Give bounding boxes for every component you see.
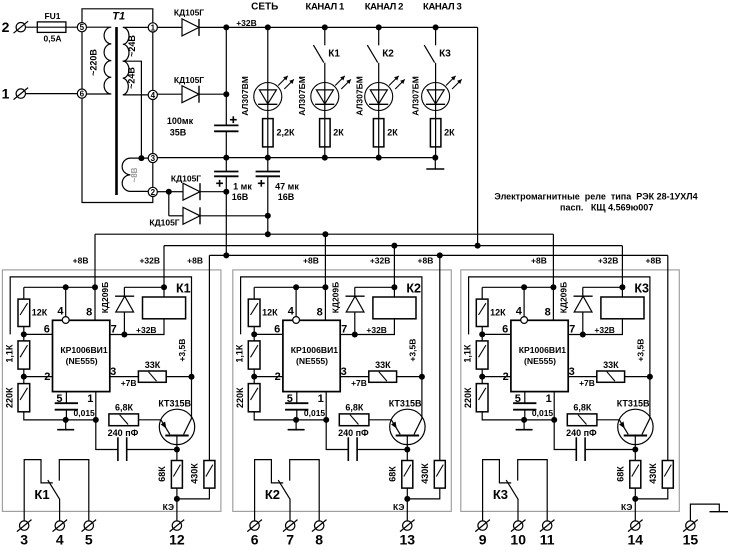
wire node2 branch down to VD4 [168, 192, 170, 216]
svg-text:2: 2 [44, 371, 50, 383]
svg-text:100мк: 100мк [167, 116, 194, 126]
resistor 1,1К (block К2) [253, 334, 255, 341]
+8В feed wire left (block К2) [324, 234, 326, 287]
junction ground row (block К1) [63, 417, 69, 423]
+32В feed wire (block К3) [621, 246, 623, 288]
common rail (node 3 row) [157, 157, 435, 159]
svg-text:АЛ307БМ: АЛ307БМ [297, 76, 307, 116]
junction +32В/СЕТЬ branch [265, 24, 271, 30]
terminal 2 (mains input) [16, 23, 25, 32]
pin 8 wire (block К1) [94, 287, 96, 320]
node 4 [148, 90, 157, 99]
svg-text:К2: К2 [265, 487, 280, 502]
svg-text:+8В: +8В [73, 255, 89, 265]
svg-text:3: 3 [151, 154, 156, 163]
contact К3 (channel switch) [435, 27, 437, 45]
feedback rail wire (block К1) [10, 277, 191, 418]
pin 8 wire (block К3) [552, 287, 554, 320]
+32В feed wire (block К2) [393, 246, 395, 288]
pin 2 wire (block К3) [482, 376, 511, 378]
contact К2 (channel switch) [378, 27, 380, 45]
wire 33К to collector line (block К1) [166, 376, 191, 378]
svg-text:33К: 33К [603, 360, 619, 370]
svg-text:К3: К3 [634, 282, 649, 296]
svg-text:1,1К: 1,1К [463, 344, 473, 363]
svg-text:2К: 2К [444, 128, 455, 138]
svg-text:6,8К: 6,8К [573, 402, 592, 412]
junction pin8/+8В (block К2) [322, 284, 328, 290]
svg-text:К2: К2 [406, 282, 421, 296]
junction pin2 (block К3) [479, 374, 485, 380]
resistor 68К (block К1) [176, 450, 178, 461]
junction pin1 (block К1) [93, 417, 99, 423]
svg-text:СЕТЬ: СЕТЬ [251, 2, 278, 13]
node 5 [77, 23, 86, 32]
svg-text:6: 6 [251, 532, 259, 548]
svg-text:2: 2 [503, 371, 509, 383]
svg-text:6: 6 [80, 90, 85, 99]
svg-text:3: 3 [110, 366, 116, 378]
svg-text:4: 4 [151, 91, 156, 100]
svg-text:6,8К: 6,8К [345, 402, 364, 412]
svg-text:+32В: +32В [136, 325, 157, 335]
junction VD3/1мк [223, 189, 229, 195]
svg-text:КР1006ВИ1: КР1006ВИ1 [60, 345, 107, 355]
node 6 [77, 89, 86, 98]
junction pin7 (block К3) [580, 332, 586, 338]
connector wire at terminal 15 [690, 504, 719, 521]
svg-text:АЛ307ВМ: АЛ307ВМ [240, 76, 250, 116]
junction +32В bus/source [475, 243, 481, 249]
СЕТЬ branch wire [267, 27, 269, 157]
IC КР1006ВИ1 (NE555) (block К2) [283, 320, 340, 391]
resistor 33К (block К2) [369, 371, 397, 382]
capacitor 100мк 35В [214, 124, 238, 126]
svg-text:6: 6 [44, 323, 50, 335]
junction VD4/47мк [265, 213, 271, 219]
junction КЭ (block К2) [404, 496, 410, 502]
wire 220К to ground row (block К1) [24, 412, 96, 420]
svg-text:1: 1 [318, 393, 324, 405]
pin 4 wire with inversion bubble (block К1) [65, 287, 67, 316]
svg-text:430К: 430К [190, 463, 200, 484]
junction pin6 (block К3) [479, 331, 485, 337]
junction common/К3 branch [432, 155, 438, 161]
svg-text:240 пФ: 240 пФ [566, 428, 597, 438]
svg-text:~24В: ~24В [127, 67, 137, 89]
resistor 2К (К2) [373, 119, 384, 147]
svg-text:3: 3 [20, 532, 28, 548]
terminal 13 [403, 521, 412, 530]
pin 1 wire (block К3) [553, 392, 555, 420]
junction collector/33К (block К3) [647, 374, 653, 380]
LED АЛ307БМ (К1) [311, 83, 339, 111]
svg-text:68К: 68К [615, 466, 625, 482]
svg-text:47 мк: 47 мк [275, 182, 299, 192]
svg-text:(NE555): (NE555) [66, 356, 98, 366]
terminal 5 [84, 521, 93, 530]
svg-text:+8В: +8В [646, 255, 662, 265]
node 2 [148, 187, 157, 196]
svg-text:~8В: ~8В [130, 167, 139, 182]
resistor 68К (block К3) [634, 450, 636, 461]
svg-text:К2: К2 [382, 49, 394, 60]
svg-text:КД209Б: КД209Б [331, 282, 341, 314]
svg-text:(NE555): (NE555) [524, 356, 556, 366]
pin 2 wire (block К2) [254, 376, 283, 378]
wire terminal2 to fuse to node 5 [25, 26, 77, 28]
svg-text:68К: 68К [157, 466, 167, 482]
svg-text:6,8К: 6,8К [115, 402, 134, 412]
wire VD2 to +32В column [199, 93, 226, 95]
transformer winding ~8В (lower small) [122, 158, 148, 191]
resistor 6,8К (block К2) [339, 414, 369, 426]
svg-text:+32В: +32В [366, 325, 387, 335]
junction collector/33К (block К1) [189, 374, 195, 380]
wire 220К to ground row (block К2) [254, 412, 326, 420]
capacitor 240пФ (block К2) [326, 420, 348, 450]
IC КР1006ВИ1 (NE555) (block К1) [53, 320, 110, 391]
junction tap/node3 [138, 155, 144, 161]
svg-text:14: 14 [628, 532, 644, 548]
svg-text:2: 2 [275, 371, 281, 383]
svg-text:0,015: 0,015 [304, 408, 326, 418]
capacitor 0,015 (block К1) [55, 402, 78, 404]
svg-text:1: 1 [2, 86, 10, 102]
svg-text:5: 5 [85, 532, 93, 548]
resistor 220К (block К2) [253, 377, 255, 384]
junction КЭ (block К1) [174, 496, 180, 502]
wire diode to relay К2 (block К2) [355, 286, 395, 288]
wire VD4 to 47мк column [200, 215, 268, 217]
terminal 6 [250, 521, 259, 530]
+8В rail wire (block К1) [24, 286, 95, 288]
svg-text:Электромагнитные реле типа: Электромагнитные реле типа РЭК 28-1УХЛ4 [494, 191, 697, 201]
wire terminal1 to node 6 [25, 93, 77, 95]
svg-text:КД105Г: КД105Г [171, 174, 201, 184]
junction lower bus/1мк [223, 252, 229, 258]
svg-text:220К: 220К [5, 387, 15, 408]
terminal 12 [172, 521, 181, 530]
diode КД209Б (block К2) [354, 287, 356, 296]
junction ground row (block К2) [293, 417, 299, 423]
diode КД105Г (VD4) [183, 207, 200, 224]
svg-text:КР1006ВИ1: КР1006ВИ1 [291, 345, 338, 355]
svg-text:8: 8 [545, 307, 551, 319]
svg-text:(NE555): (NE555) [296, 356, 328, 366]
feedback rail wire (block К2) [241, 277, 422, 418]
pin 5 wire (block К1) [65, 392, 67, 404]
svg-text:КЭ: КЭ [621, 502, 632, 512]
+8В feed wire right (block К3) [667, 255, 669, 460]
svg-text:2К: 2К [387, 128, 398, 138]
resistor 12К (block К1) [23, 287, 25, 299]
svg-text:+3,5В: +3,5В [408, 339, 418, 362]
svg-text:6: 6 [274, 323, 280, 335]
+8В bus (lower) [209, 254, 667, 256]
relay coil К3 [621, 287, 623, 297]
+32В bus [164, 245, 622, 247]
relay contacts К1 [24, 460, 53, 521]
junction pin8/+8В (block К3) [550, 284, 556, 290]
svg-text:1 мк: 1 мк [233, 182, 252, 192]
wire diode to relay К1 (block К1) [124, 286, 164, 288]
wire VD1 to +32В rail [199, 26, 226, 28]
pin 2 wire (block К1) [24, 376, 53, 378]
wire 1мк to VD3 junction and +8В bus [225, 176, 227, 255]
junction emitter (block К3) [632, 447, 638, 453]
wire +32В rail drop to relay bus [477, 27, 479, 245]
svg-text:+8В: +8В [418, 255, 434, 265]
svg-text:АЛ307БМ: АЛ307БМ [410, 76, 420, 116]
svg-text:КЭ: КЭ [163, 502, 174, 512]
svg-text:8: 8 [86, 307, 92, 319]
svg-text:7: 7 [111, 323, 117, 335]
node 1 [148, 23, 157, 32]
pin 1 wire (block К2) [325, 392, 327, 420]
pin 8 wire (block К2) [324, 287, 326, 320]
svg-text:КТ315В: КТ315В [389, 398, 422, 408]
svg-text:+32В: +32В [594, 325, 615, 335]
svg-text:КД105Г: КД105Г [174, 8, 204, 18]
svg-text:35В: 35В [170, 128, 187, 138]
svg-text:КАНАЛ 1: КАНАЛ 1 [306, 2, 345, 13]
LED АЛ307БМ (К2) [365, 83, 393, 111]
svg-text:1: 1 [87, 393, 93, 405]
relay coil К2 [393, 287, 395, 297]
svg-text:4: 4 [57, 306, 64, 318]
+8В rail wire (block К3) [482, 286, 553, 288]
svg-text:4: 4 [288, 306, 295, 318]
junction lower bus/block2 [437, 252, 443, 258]
svg-text:+7В: +7В [121, 378, 137, 388]
transistor КТ315В (block К1) [159, 409, 194, 444]
junction +32В/К1 branch [322, 24, 328, 30]
svg-text:240 пФ: 240 пФ [108, 428, 139, 438]
resistor 2К (К1) [320, 119, 331, 147]
svg-text:КД105Г: КД105Г [174, 75, 204, 85]
junction common/К1 branch [322, 155, 328, 161]
resistor 33К (block К1) [138, 371, 166, 382]
svg-text:4: 4 [516, 306, 523, 318]
svg-text:10: 10 [510, 532, 526, 548]
resistor 2,2К [263, 119, 274, 147]
svg-text:0,015: 0,015 [532, 408, 554, 418]
svg-text:+3,5В: +3,5В [177, 339, 187, 362]
resistor 430К (block К1) [204, 461, 215, 489]
svg-text:1,1К: 1,1К [4, 344, 14, 363]
LED АЛ307ВМ (СЕТЬ) [254, 83, 282, 111]
svg-text:К3: К3 [439, 49, 451, 60]
contact К1 (channel switch) [324, 27, 326, 45]
svg-text:15: 15 [683, 532, 699, 548]
svg-text:+3,5В: +3,5В [636, 339, 646, 362]
+32В feed wire (block К1) [163, 246, 165, 288]
+8В feed wire right (block К2) [439, 255, 441, 460]
wire VD3 to 1мк column [200, 191, 226, 193]
terminal 15 [686, 521, 695, 530]
svg-text:9: 9 [479, 532, 487, 548]
svg-text:3: 3 [341, 366, 347, 378]
junction VD2 output [223, 91, 229, 97]
svg-text:КТ315В: КТ315В [158, 398, 191, 408]
svg-text:6: 6 [502, 323, 508, 335]
junction +32В bus/block2 [391, 243, 397, 249]
wire 220К to ground row (block К3) [482, 412, 554, 420]
ground at common rail [434, 158, 436, 169]
junction emitter (block К1) [174, 447, 180, 453]
transistor КТ315В (block К2) [390, 409, 425, 444]
svg-text:13: 13 [400, 532, 416, 548]
ground (block К3) [523, 420, 525, 430]
junction bus/block2 +8В [322, 231, 328, 237]
capacitor 47мк 16В [267, 158, 269, 172]
transformer secondary winding ~24В (lower) [123, 61, 148, 95]
+8В feed wire left (block К3) [552, 234, 554, 287]
svg-text:0,5А: 0,5А [44, 34, 62, 44]
wire node2 to diode VD3 [157, 191, 168, 193]
junction ground row (block К3) [521, 417, 527, 423]
resistor 430К (block К3) [662, 461, 673, 489]
transformer T1 outline box [82, 9, 153, 23]
svg-text:5: 5 [80, 23, 85, 32]
capacitor 240пФ (block К1) [96, 420, 118, 450]
diode КД105Г (VD3) [183, 183, 200, 200]
junction pin2 (block К1) [21, 374, 27, 380]
svg-text:КТ315В: КТ315В [617, 398, 650, 408]
LED АЛ307БМ (К3) [422, 83, 450, 111]
pin 3 wire (block К2) [340, 376, 369, 378]
junction pin6 (block К2) [251, 331, 257, 337]
transformer core [115, 27, 118, 195]
wire centre tap to node 3 [123, 61, 148, 158]
svg-text:1,1К: 1,1К [235, 344, 245, 363]
svg-text:12К: 12К [262, 307, 278, 317]
+8В feed wire right (block К1) [208, 255, 210, 460]
terminal 1 (mains input) [16, 89, 25, 98]
svg-text:1: 1 [546, 393, 552, 405]
relay contacts К3 [483, 460, 512, 521]
svg-text:220К: 220К [463, 387, 473, 408]
svg-text:7: 7 [286, 532, 294, 548]
diode КД209Б (block К1) [123, 287, 125, 296]
svg-text:1: 1 [151, 23, 156, 32]
wire diode to relay К3 (block К3) [583, 286, 623, 288]
junction relay top (block К3) [619, 284, 625, 290]
svg-text:12К: 12К [490, 307, 506, 317]
resistor 220К (block К1) [23, 377, 25, 384]
resistor 68К (block К2) [406, 450, 408, 461]
capacitor 240пФ (block К3) [554, 420, 576, 450]
svg-text:8: 8 [317, 307, 323, 319]
wire relay coil to pin 7 (block К3) [568, 319, 622, 335]
junction pin7 (block К2) [352, 332, 358, 338]
+8В bus (upper) [95, 233, 553, 235]
wire relay coil to pin 7 (block К2) [340, 319, 394, 335]
+8В feed wire left (block К1) [94, 234, 96, 287]
wire node4 to diode VD2 [157, 93, 182, 95]
resistor 1,1К (block К1) [23, 334, 25, 341]
IC КР1006ВИ1 (NE555) (block К3) [511, 320, 568, 391]
svg-text:К3: К3 [493, 487, 508, 502]
terminal 14 [631, 521, 640, 530]
svg-text:КАНАЛ 3: КАНАЛ 3 [423, 2, 461, 13]
feedback rail wire (block К3) [469, 277, 650, 418]
capacitor 0,015 (block К3) [513, 402, 536, 404]
terminal 11 [543, 521, 552, 530]
junction emitter (block К2) [404, 447, 410, 453]
junction pin7 (block К1) [121, 332, 127, 338]
wire К1 branch [324, 63, 326, 158]
svg-text:33К: 33К [145, 360, 161, 370]
pin 6 wire (block К3) [482, 333, 511, 335]
pin 3 wire (block К1) [110, 376, 139, 378]
svg-text:+7В: +7В [351, 378, 367, 388]
junction common/1мк [223, 155, 229, 161]
junction pin2 (block К2) [251, 374, 257, 380]
junction +32В/К3 branch [433, 24, 439, 30]
svg-text:430К: 430К [648, 463, 658, 484]
transformer primary winding ~220В [86, 27, 111, 94]
ground (block К1) [65, 420, 67, 430]
capacitor 0,015 (block К2) [285, 402, 308, 404]
svg-text:2,2К: 2,2К [277, 128, 296, 138]
wire 33К to collector line (block К2) [397, 376, 422, 378]
junction relay top (block К2) [391, 284, 397, 290]
pin 6 wire (block К1) [24, 333, 53, 335]
svg-text:+7В: +7В [579, 378, 595, 388]
svg-text:~24В: ~24В [127, 35, 137, 57]
junction pin4 (block К2) [293, 284, 299, 290]
svg-text:+32В: +32В [139, 255, 160, 265]
junction pin1 (block К2) [323, 417, 329, 423]
terminal 4 [55, 521, 64, 530]
pin 1 wire (block К1) [95, 392, 97, 420]
svg-text:К1: К1 [176, 282, 191, 296]
junction node2 branch [166, 189, 172, 195]
ground (block К2) [295, 420, 297, 430]
svg-text:2К: 2К [333, 128, 344, 138]
svg-text:220К: 220К [235, 387, 245, 408]
svg-text:11: 11 [540, 532, 555, 548]
diode КД105Г (VD2) [182, 86, 199, 103]
svg-text:КЭ: КЭ [393, 502, 404, 512]
junction common/47мк [265, 155, 271, 161]
svg-text:+8В: +8В [531, 255, 547, 265]
svg-text:16В: 16В [232, 192, 249, 202]
wire КЭ to terminal 12 (block К1) [176, 499, 178, 522]
wire К3 branch [435, 63, 437, 158]
svg-text:КД209Б: КД209Б [559, 282, 569, 314]
diode КД105Г (VD1) [182, 19, 199, 36]
terminal 8 [315, 521, 324, 530]
svg-text:пасп. КЩ 4.569ю007: пасп. КЩ 4.569ю007 [560, 203, 653, 213]
svg-text:430К: 430К [420, 463, 430, 484]
node 3 [148, 154, 157, 163]
junction КЭ (block К3) [632, 496, 638, 502]
junction pin8/+8В (block К1) [92, 284, 98, 290]
junction pin4 (block К3) [521, 284, 527, 290]
resistor 220К (block К3) [481, 377, 483, 384]
terminal 3 [20, 521, 29, 530]
wire 33К to collector line (block К3) [625, 376, 650, 378]
+8В rail wire (block К2) [254, 286, 325, 288]
resistor 2К (К3) [430, 119, 441, 147]
pin 3 wire (block К3) [568, 376, 597, 378]
wire КЭ to terminal 13 (block К2) [406, 499, 408, 522]
svg-text:12: 12 [169, 532, 185, 548]
junction +32В/К2 branch [376, 24, 382, 30]
